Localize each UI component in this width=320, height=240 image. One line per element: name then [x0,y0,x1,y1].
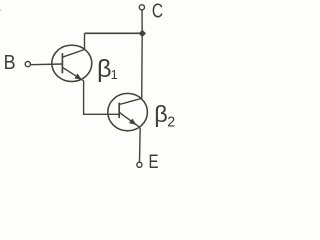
svg-text:β: β [97,55,112,83]
svg-text:B: B [4,52,16,74]
svg-text:1: 1 [111,67,118,82]
svg-text:E: E [149,150,159,172]
svg-text:C: C [152,0,163,22]
svg-text:2: 2 [167,115,175,131]
svg-text:β: β [154,101,168,127]
